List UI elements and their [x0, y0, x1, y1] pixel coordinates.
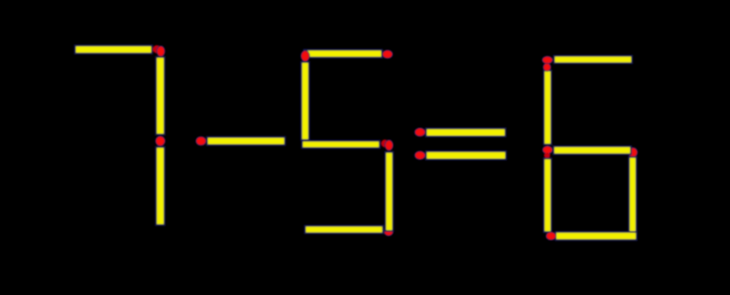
digit 6: red tip at top of lower-right vertical stick (behind middle stick) [628, 148, 637, 158]
digit 5: red tip at bottom of lower-right vertical stick (behind stick) [384, 227, 393, 236]
equals sign: red tip of bottom matchstick [415, 151, 425, 159]
digit 7: dark red tip at right end of top stick [153, 45, 161, 53]
digit 5: bottom horizontal matchstick [305, 226, 383, 233]
digit 6: red tip at top of lower-left vertical stick [544, 153, 550, 158]
digit 5: upper-left vertical matchstick [301, 62, 309, 140]
digit 7: red tip at junction of vertical sticks [156, 136, 165, 146]
equals sign: top horizontal matchstick [426, 128, 506, 136]
minus sign: horizontal matchstick [207, 137, 285, 145]
digit 7: red tip at top of upper vertical stick [157, 46, 165, 56]
minus sign: red tip at left end [196, 137, 206, 146]
digit 5: red tip at top of upper-left vertical stick [301, 51, 309, 62]
digit 7: lower vertical matchstick [156, 147, 165, 225]
digit 5: dark red tip at right end of middle stick [381, 140, 388, 148]
digit 6: middle horizontal matchstick [554, 146, 632, 154]
digit 5: top horizontal matchstick [304, 50, 382, 58]
digit 5: middle horizontal matchstick [302, 141, 380, 148]
equals sign: bottom horizontal matchstick [426, 151, 506, 159]
digit 7: top horizontal matchstick [75, 46, 152, 54]
digit 6: lower-right vertical matchstick [629, 157, 636, 232]
digit 5: lower-right vertical matchstick [385, 152, 393, 231]
digit 6: red tip at left end of bottom stick [546, 232, 556, 240]
digit 6: top horizontal matchstick [554, 56, 632, 63]
equals sign: red tip of top matchstick [415, 128, 425, 136]
digit 6: red tip at left end of top stick [542, 56, 552, 63]
digit 6: bottom horizontal matchstick [556, 232, 637, 240]
digit 6: lower-left vertical matchstick [544, 159, 552, 233]
digit 6: red tip at top of upper-left vertical stick [543, 63, 551, 71]
digit 5: red tip at top of lower-right vertical stick [385, 140, 393, 150]
digit 6: red tip at left end of middle stick [543, 146, 553, 154]
digit 6: upper-left vertical matchstick [544, 71, 552, 145]
digit 7: upper vertical matchstick [156, 57, 165, 135]
digit 5: red tip at right end of top stick [383, 50, 393, 58]
